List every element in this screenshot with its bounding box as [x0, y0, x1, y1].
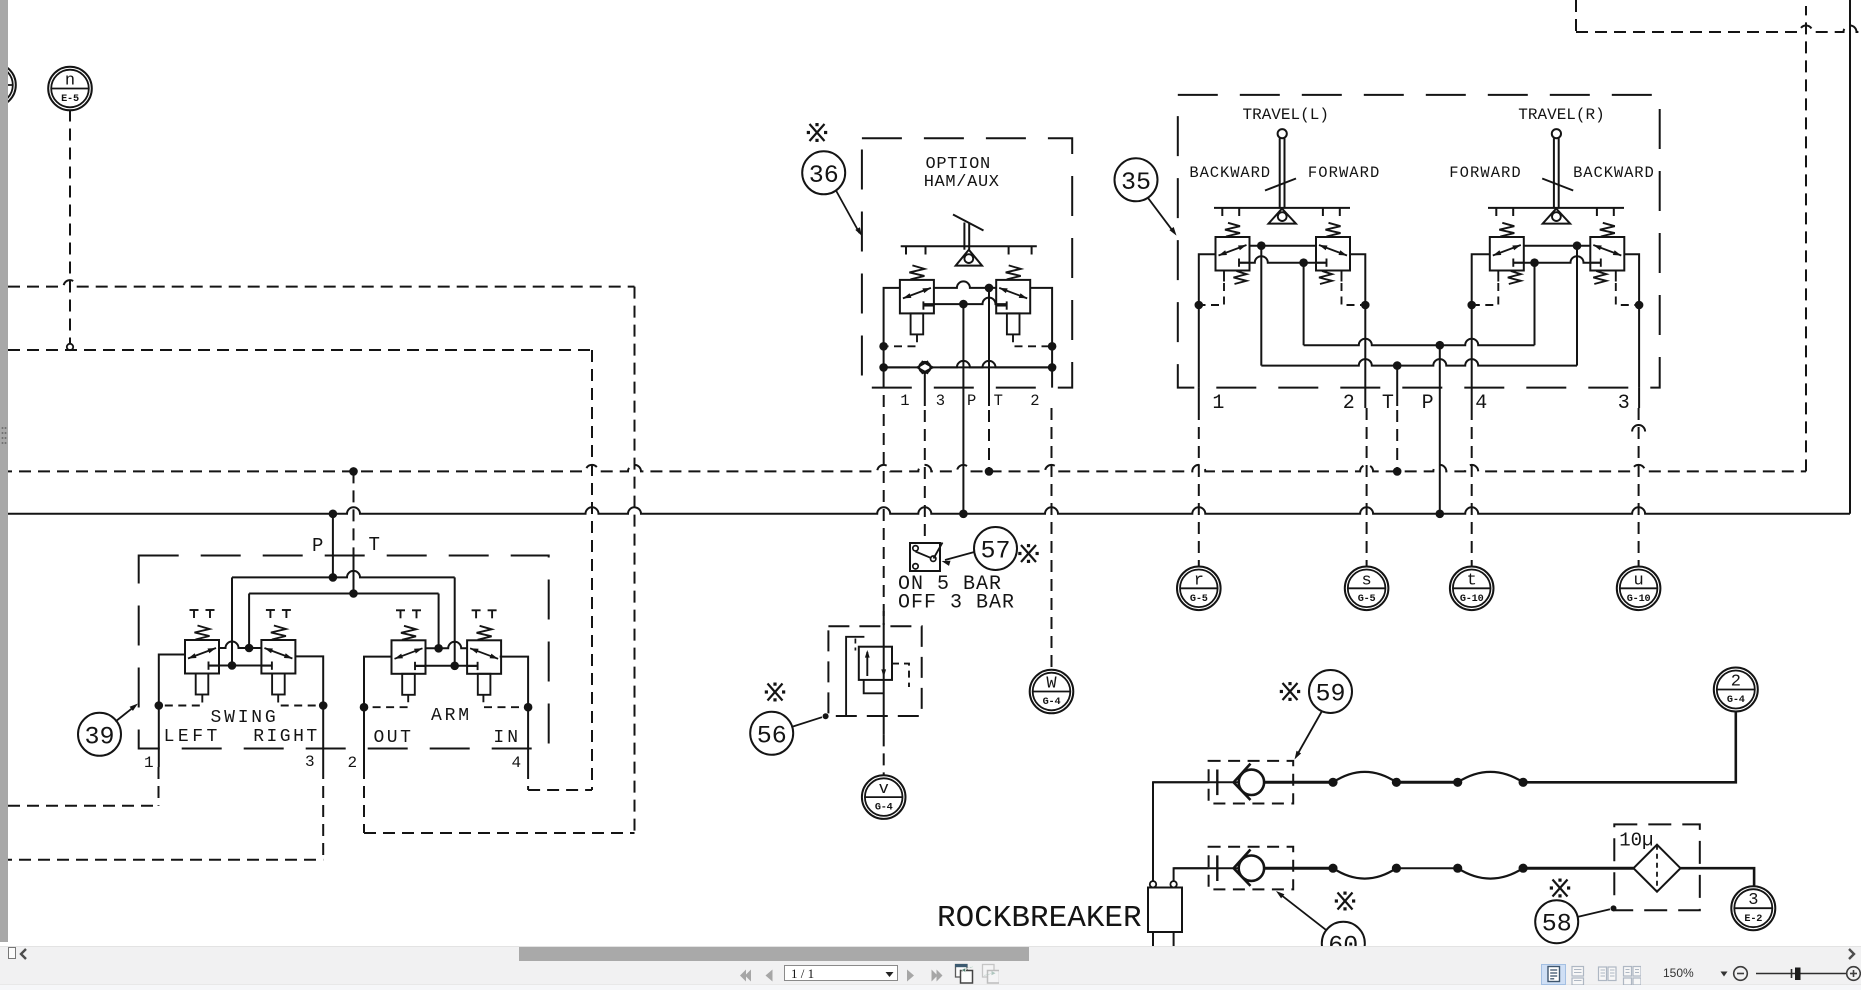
- svg-text:s: s: [1361, 571, 1371, 590]
- svg-text:1: 1: [1212, 392, 1224, 415]
- svg-text:ROCKBREAKER: ROCKBREAKER: [937, 901, 1142, 936]
- svg-text:OFF 3 BAR: OFF 3 BAR: [898, 592, 1015, 615]
- svg-text:G-10: G-10: [1627, 594, 1651, 605]
- svg-text:T: T: [369, 534, 380, 556]
- svg-text:T: T: [994, 392, 1003, 410]
- svg-text:60: 60: [1328, 931, 1358, 946]
- svg-text:TRAVEL(R): TRAVEL(R): [1518, 106, 1604, 124]
- svg-text:BACKWARD: BACKWARD: [1189, 164, 1271, 182]
- svg-text:2: 2: [348, 754, 358, 772]
- svg-text:TRAVEL(L): TRAVEL(L): [1243, 106, 1329, 124]
- svg-text:2: 2: [1343, 392, 1355, 415]
- svg-text:56: 56: [757, 721, 787, 750]
- svg-text:58: 58: [1542, 910, 1572, 939]
- svg-text:u: u: [1633, 571, 1643, 590]
- svg-text:SWING: SWING: [211, 708, 279, 728]
- svg-text:35: 35: [1121, 168, 1151, 197]
- svg-text:57: 57: [980, 537, 1010, 566]
- svg-text:G-10: G-10: [1460, 594, 1484, 605]
- svg-text:2: 2: [1731, 673, 1741, 692]
- svg-text:1: 1: [144, 754, 154, 772]
- svg-text:36: 36: [809, 161, 839, 190]
- svg-text:E-5: E-5: [61, 94, 79, 105]
- svg-text:1: 1: [900, 392, 909, 410]
- svg-text:n: n: [65, 72, 75, 91]
- svg-text:G-5: G-5: [1190, 594, 1208, 605]
- svg-text:FORWARD: FORWARD: [1308, 164, 1380, 182]
- svg-text:3: 3: [1618, 392, 1630, 415]
- svg-text:BACKWARD: BACKWARD: [1573, 164, 1655, 182]
- svg-text:IN: IN: [493, 728, 521, 748]
- svg-text:RIGHT: RIGHT: [253, 727, 320, 747]
- svg-text:HAM/AUX: HAM/AUX: [924, 173, 1000, 192]
- svg-text:FORWARD: FORWARD: [1449, 164, 1521, 182]
- svg-text:LEFT: LEFT: [164, 727, 221, 747]
- svg-text:59: 59: [1315, 680, 1345, 709]
- svg-text:v: v: [879, 780, 889, 799]
- svg-text:r: r: [1194, 571, 1204, 590]
- svg-text:4: 4: [512, 754, 522, 772]
- svg-text:ARM: ARM: [431, 706, 472, 726]
- svg-text:G-4: G-4: [1727, 695, 1745, 706]
- svg-text:P: P: [1422, 392, 1434, 415]
- svg-text:G-5: G-5: [1358, 594, 1376, 605]
- svg-text:39: 39: [84, 722, 114, 751]
- svg-text:E-2: E-2: [1744, 914, 1762, 925]
- svg-text:OPTION: OPTION: [926, 155, 991, 174]
- svg-text:P: P: [312, 535, 323, 557]
- svg-text:10µ: 10µ: [1619, 830, 1653, 852]
- svg-text:G-4: G-4: [1043, 697, 1061, 708]
- svg-text:P: P: [967, 392, 976, 410]
- svg-text:OUT: OUT: [374, 728, 414, 748]
- svg-text:t: t: [1467, 571, 1477, 590]
- svg-text:T: T: [1382, 392, 1394, 415]
- svg-text:3: 3: [305, 753, 315, 771]
- svg-text:W: W: [1046, 675, 1057, 694]
- svg-text:G-4: G-4: [875, 803, 893, 814]
- svg-text:3: 3: [1748, 891, 1758, 910]
- svg-text:4: 4: [1475, 392, 1487, 415]
- svg-text:3: 3: [936, 392, 945, 410]
- svg-text:2: 2: [1030, 392, 1039, 410]
